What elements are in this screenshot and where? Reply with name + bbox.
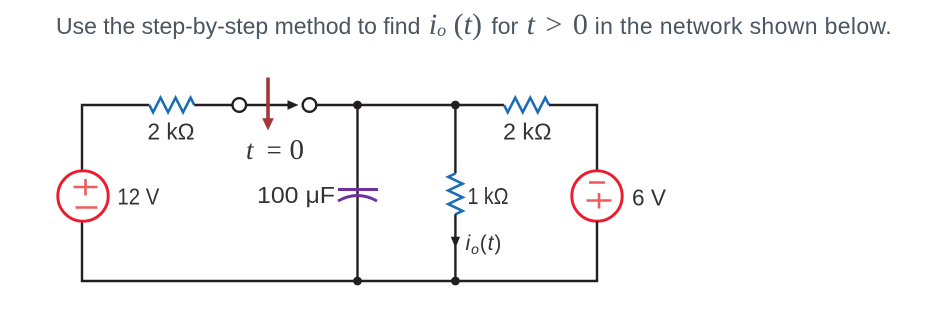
wire: R1 to switch pole [194,104,232,106]
node B (top of 1 kΩ branch) [451,101,460,110]
wire: bottom-left up to V1 [81,221,83,281]
node A (top of capacitor branch) [353,101,362,110]
wire: 1 kΩ branch upper [454,105,456,174]
V1 minus sign [76,206,98,209]
node D (bottom of 1 kΩ branch) [451,277,460,286]
svg-text:12 V: 12 V [117,183,160,209]
V1 plus sign [74,179,98,196]
switch blade arrowhead [288,100,299,110]
svg-text:t=0: t=0 [246,134,304,166]
svg-text:100 μF: 100 μF [257,182,335,208]
voltage source V2 (6 V) circle [572,171,622,221]
svg-text:2 kΩ: 2 kΩ [503,118,552,144]
switch SW1 throw circle (right) [303,98,317,112]
wire: switch to node A to node B to R2 [316,104,504,106]
wire: V2 to bottom-right corner [596,221,598,281]
switch SW1 pole circle (left) [233,98,247,112]
svg-text:2 kΩ: 2 kΩ [148,119,195,145]
wire: R2 to top-right corner down to V2 [549,105,597,171]
wire: capacitor branch vertical [356,105,358,281]
V2 plus sign [587,193,612,209]
V2 minus sign [589,181,605,184]
wire: V1 source up left side and top rail to R1 [82,105,149,171]
resistor R3 (1 kΩ, vertical zigzag) [448,174,462,215]
switch actuation arrow (red, closes at t=0) [262,78,274,131]
wire: 1 kΩ branch lower [454,214,456,281]
svg-text:6 V: 6 V [632,185,667,211]
resistor R2 (2 kΩ, top right zigzag) [504,98,549,113]
node C (bottom of capacitor branch) [353,277,362,286]
svg-text:1 kΩ: 1 kΩ [468,183,509,209]
resistor R1 (2 kΩ, top left zigzag) [149,98,194,113]
wire: bottom rail [81,280,598,282]
wire: switch blade [246,104,288,106]
capacitor C1 plates [338,190,378,202]
current arrow i_o(t) arrowhead [451,237,460,248]
voltage source V1 (12 V) circle [58,171,108,221]
svg-text:io(t): io(t) [466,232,503,257]
